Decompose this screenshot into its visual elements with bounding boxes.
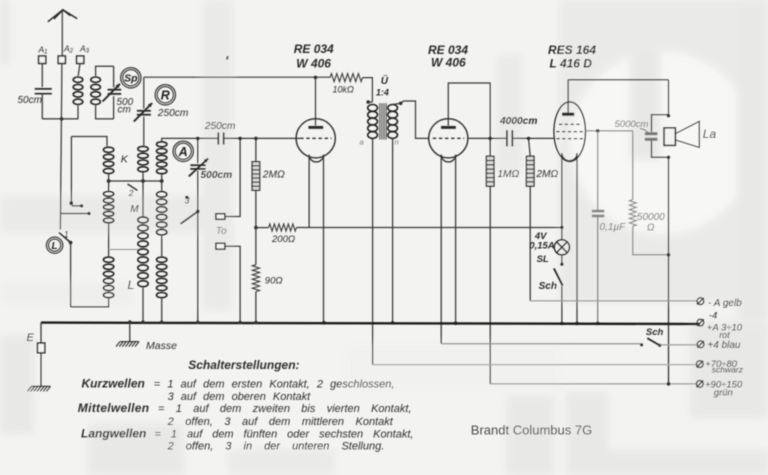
wire 50cm cap to node — [41, 94, 43, 119]
svg-text:cm: cm — [118, 104, 131, 115]
wire grid rail left — [162, 138, 218, 141]
terminal +90 — [696, 381, 703, 388]
svg-text:2MΩ: 2MΩ — [262, 169, 285, 180]
wire filament V2 left — [440, 155, 442, 344]
junction Masse bus — [128, 320, 131, 323]
wire 0.1uF to bus — [597, 217, 599, 324]
wire coil2 to bus — [142, 288, 144, 323]
svg-text:3 auf dem oberen Kontakt: 3 auf dem oberen Kontakt — [168, 391, 312, 403]
wire B+ top rail — [568, 79, 668, 81]
wire to +90 terminal — [490, 383, 696, 385]
svg-text:Sp: Sp — [124, 73, 138, 85]
wire A cap to bus — [197, 171, 199, 323]
coil M2 L2 — [138, 217, 148, 287]
coil L3 — [157, 257, 167, 298]
svg-text:5000cm: 5000cm — [615, 119, 649, 130]
coil K1 — [103, 147, 113, 173]
junction link col2 — [141, 179, 145, 183]
wire To lower — [225, 246, 240, 322]
ground earth — [28, 386, 51, 391]
junction secondary bus — [391, 321, 395, 325]
capacitor 4000cm — [507, 130, 512, 146]
wire R cap to coil K2 — [143, 117, 145, 146]
wire M1-L1 — [108, 224, 110, 257]
dial R — [155, 85, 175, 105]
svg-text:To: To — [216, 226, 227, 237]
svg-text:n: n — [395, 138, 399, 147]
svg-text:2 offen, 3 auf dem mittleren K: 2 offen, 3 auf dem mittleren Kontakt — [167, 416, 394, 428]
svg-text:K: K — [121, 154, 129, 166]
wire 50000 to B+ rail — [633, 226, 669, 255]
terminal -A — [697, 298, 704, 305]
wire secondary bottom — [392, 138, 394, 322]
wire to +70 terminal — [372, 364, 696, 366]
wire 90R to bus — [255, 292, 257, 323]
wire K3-M3 — [161, 175, 163, 191]
wire cap to V3 grid — [513, 137, 554, 139]
svg-text:L: L — [128, 278, 135, 292]
wire switch to bus — [561, 286, 563, 324]
junction antenna/earth node — [60, 117, 64, 121]
terminal E — [37, 343, 44, 353]
wire to wave switch contact — [70, 243, 72, 307]
wire 2M to 90R — [255, 190, 257, 264]
svg-text:A: A — [178, 145, 188, 159]
wire plate V2 — [448, 83, 490, 137]
junction plate V1 — [314, 76, 318, 80]
junction transformer in — [366, 100, 370, 104]
svg-text:4000cm: 4000cm — [499, 116, 537, 127]
wire A1 to 50cm cap — [41, 64, 43, 88]
wire to 0.1uF — [597, 131, 599, 210]
junction 0.1uF bus — [596, 322, 600, 326]
contact M1 tap a — [80, 204, 83, 207]
transformer T1 secondary — [388, 105, 398, 139]
wire E to earth — [40, 353, 42, 386]
speaker La driver — [664, 128, 675, 146]
wire to Sp capacitor — [113, 66, 115, 87]
wire secondary top — [96, 66, 114, 76]
wire K2 to M2 — [142, 173, 144, 216]
junction 2M tap — [527, 137, 531, 141]
wire to output transformer — [668, 80, 670, 115]
terminal +70 — [696, 361, 703, 368]
contact wave switch — [69, 241, 73, 245]
junction 1M tap — [488, 137, 492, 141]
wire 2M down — [529, 186, 531, 301]
svg-text:SL: SL — [537, 254, 549, 265]
junction 0.1uF tap — [596, 129, 600, 133]
wire to V2 grid — [401, 101, 429, 138]
junction B+ rail +90 — [667, 382, 671, 386]
junction coil2 bus — [141, 320, 144, 323]
junction link col1 — [107, 179, 111, 183]
resistor R8 50000 — [629, 200, 636, 227]
wire plate V3 — [567, 80, 569, 114]
wire grid V1 — [296, 137, 300, 139]
dial L — [46, 237, 62, 253]
triode V1 RE034 — [296, 119, 335, 162]
junction speaker top — [667, 114, 671, 118]
capacitor 0.1uF — [592, 211, 604, 216]
svg-text:a: a — [360, 138, 364, 147]
wire bus to E — [40, 323, 42, 343]
wire grid rail right — [224, 137, 296, 139]
contact Sch2 left — [640, 343, 643, 346]
resistor R6 1M — [486, 156, 494, 186]
svg-text:rot: rot — [719, 330, 730, 340]
stub M1 tap a — [72, 205, 81, 207]
coil M1 — [103, 192, 113, 223]
resistor R4 200R — [269, 224, 297, 231]
svg-text:2MΩ: 2MΩ — [535, 169, 558, 180]
svg-text:R: R — [161, 88, 170, 102]
wire A3 to antenna coil — [78, 64, 80, 76]
wire filament V1 left — [308, 155, 310, 228]
svg-text:10kΩ: 10kΩ — [333, 85, 355, 95]
svg-text:0,15A: 0,15A — [529, 241, 554, 252]
pentode V3 RES164 — [554, 102, 586, 162]
variable capacitor A 500cm — [189, 158, 208, 176]
wire 2M top — [255, 138, 257, 161]
wire K1 top — [71, 137, 107, 147]
junction lamp rail — [560, 226, 563, 229]
wire primary bottom lead — [77, 106, 79, 119]
wire plate V1 — [315, 77, 317, 125]
svg-text:RES 164: RES 164 — [548, 43, 596, 57]
svg-text:Brandt Columbus 7G: Brandt Columbus 7G — [471, 423, 592, 438]
wire filament V1 right — [323, 155, 325, 323]
svg-text:Sch: Sch — [539, 281, 557, 292]
wire secondary bottom loop — [96, 106, 114, 119]
svg-text:1MΩ: 1MΩ — [497, 169, 519, 180]
switch arm 3b — [181, 211, 198, 223]
wire 1M top — [489, 138, 491, 156]
junction V3 filament bus — [575, 322, 579, 326]
wire 2M top — [529, 138, 531, 156]
antenna mast lead — [61, 11, 63, 57]
svg-text:250cm: 250cm — [157, 108, 189, 119]
resistor R7 2M — [526, 156, 534, 186]
contact square — [70, 202, 73, 205]
capacitor 50cm — [35, 89, 52, 94]
svg-text:Langwellen: Langwellen — [81, 426, 146, 440]
wire to transformer — [363, 78, 373, 102]
transformer T1 primary — [368, 105, 378, 139]
svg-text:2: 2 — [128, 188, 134, 198]
svg-text:E: E — [27, 332, 35, 344]
terminal To upper — [216, 214, 225, 220]
stub M1 tap b — [60, 213, 87, 215]
svg-text:-4: -4 — [709, 311, 717, 322]
svg-text:Sch: Sch — [646, 327, 664, 338]
wire filament V3 left / lamp feed — [561, 153, 563, 240]
terminal A1 — [39, 56, 46, 64]
wire coil3 to bus — [161, 299, 163, 323]
terminal -4/+A — [697, 319, 704, 326]
coil M3 — [157, 192, 167, 235]
svg-text:L: L — [52, 241, 58, 252]
wire M3-L3 — [161, 236, 163, 256]
svg-text:Ü: Ü — [381, 74, 389, 87]
svg-text:90Ω: 90Ω — [265, 275, 283, 286]
antenna symbol — [48, 10, 77, 22]
junction To branch — [238, 137, 242, 141]
svg-text:0,1µF: 0,1µF — [600, 222, 627, 233]
svg-text:Mittelwellen: Mittelwellen — [78, 401, 150, 415]
wire filament V3 right — [576, 153, 578, 323]
svg-text:M: M — [130, 204, 139, 215]
svg-text:- A gelb: - A gelb — [708, 298, 742, 309]
wire lamp to switch — [561, 255, 563, 263]
wire filament rail — [296, 227, 562, 229]
svg-text:Masse: Masse — [146, 340, 177, 352]
svg-text:3: 3 — [185, 196, 190, 206]
switch Sch2 arm — [647, 338, 660, 345]
svg-text:1: 1 — [64, 229, 69, 239]
wire contact column — [70, 137, 72, 202]
junction A cap bus — [196, 321, 199, 324]
wire A cap top — [197, 138, 199, 163]
svg-text:RE 034: RE 034 — [294, 42, 334, 56]
svg-text:1:4: 1:4 — [376, 88, 389, 98]
wire To upper — [225, 138, 240, 216]
terminal A2 — [58, 56, 65, 64]
wire to -A terminal — [530, 300, 697, 302]
junction 2M branch — [254, 137, 258, 141]
svg-text:schwarz: schwarz — [712, 365, 744, 375]
contact M1 tap b — [87, 212, 90, 215]
wire antenna mast down — [60, 64, 62, 230]
junction grid rail / A cap — [196, 137, 200, 141]
junction V2 filament bus — [454, 321, 458, 325]
junction 90R bus — [254, 321, 257, 324]
switch arm 1 — [59, 233, 70, 243]
svg-text:+4 blau: +4 blau — [707, 340, 741, 351]
junction secondary top — [399, 102, 403, 106]
wire secondary top lead — [393, 103, 401, 104]
junction V1 filament bus — [322, 321, 326, 325]
speaker La cone — [675, 121, 699, 147]
capacitor 250cm series — [218, 132, 223, 144]
switch arm 2 — [128, 184, 138, 191]
junction To bus — [238, 321, 241, 324]
leader 5000cm — [640, 129, 649, 134]
resistor R3 2M — [252, 162, 260, 191]
antenna coil secondary — [91, 77, 101, 105]
wire Sp cap bottom — [113, 96, 115, 119]
capacitor 5000cm — [645, 134, 658, 140]
wire V2 plate to cap — [468, 137, 506, 139]
svg-text:W 406: W 406 — [296, 57, 331, 71]
svg-text:= 1 auf dem ersten Kontakt, 2: = 1 auf dem ersten Kontakt, 2 geschlosse… — [154, 378, 395, 390]
svg-text:Ω: Ω — [647, 223, 655, 234]
variable capacitor Sp 500cm — [103, 84, 122, 102]
antenna coil primary — [73, 77, 83, 105]
scan speck — [226, 56, 229, 60]
wire band link — [109, 180, 162, 182]
wire main bus — [41, 323, 700, 324]
pilot lamp SL — [554, 240, 569, 255]
junction switch arm 3 — [196, 210, 200, 214]
wire antenna coil bottom — [42, 118, 78, 120]
wire R branch down — [143, 77, 145, 108]
wire K1-M1 — [108, 175, 110, 191]
wire to 200R — [256, 227, 269, 229]
wire primary to heater tap — [372, 138, 374, 364]
svg-text:500cm: 500cm — [201, 170, 233, 181]
terminal To lower — [216, 243, 225, 249]
svg-text:250cm: 250cm — [204, 121, 236, 132]
coil L1 — [103, 257, 113, 298]
junction lamp bus — [560, 322, 564, 326]
wire L1 bottom — [71, 299, 109, 307]
wire top rail left — [144, 76, 330, 78]
variable capacitor R 250cm — [134, 103, 152, 122]
wire screen tap rail — [585, 130, 633, 132]
junction link col3 — [160, 179, 164, 183]
svg-text:grün: grün — [714, 387, 733, 398]
svg-text:50cm: 50cm — [18, 95, 42, 106]
contact switch Sch1 — [560, 263, 563, 266]
wire to 50000 — [632, 131, 634, 200]
junction 50000 B+ — [667, 253, 671, 257]
svg-text:L 416 D: L 416 D — [550, 57, 593, 71]
svg-text:200Ω: 200Ω — [271, 234, 295, 245]
contact Sch2 right — [658, 344, 661, 347]
ground Masse — [116, 342, 139, 347]
wire primary top lead — [368, 101, 372, 103]
triode V2 RE034 — [429, 119, 468, 162]
svg-text:Kurzwellen: Kurzwellen — [82, 376, 145, 390]
wire band link 2 — [109, 249, 143, 251]
coil K3 — [157, 142, 167, 174]
transformer T1 core — [380, 103, 386, 139]
contact 3 — [185, 196, 188, 199]
output transformer / speaker frame — [652, 115, 669, 158]
svg-text:2 offen, 3 in der unteren Stel: 2 offen, 3 in der unteren Stellung. — [167, 441, 385, 453]
wire filament V2 right — [455, 155, 457, 323]
wire to +4 switch — [442, 343, 641, 345]
resistor R1 10k — [330, 74, 363, 82]
wire 1M down — [489, 186, 491, 384]
terminal +4 — [697, 341, 704, 348]
svg-text:50000: 50000 — [637, 212, 665, 223]
dial A — [173, 141, 193, 161]
svg-text:Schalterstellungen:: Schalterstellungen: — [188, 358, 299, 372]
wire Sch2 to +4 terminal — [660, 344, 697, 346]
terminal A3 — [77, 56, 84, 64]
svg-text:La: La — [703, 127, 717, 141]
wire bus to Masse — [129, 322, 131, 341]
junction coil3 bus — [160, 320, 163, 323]
wire B+ down rail — [668, 157, 670, 384]
junction speaker bottom — [667, 156, 671, 160]
svg-text:= 1 auf dem fünften oder sechs: = 1 auf dem fünften oder sechsten Kontak… — [155, 428, 414, 440]
resistor R5 90R — [252, 265, 259, 292]
dial Sp — [121, 68, 141, 88]
junction 200R tap — [254, 226, 258, 230]
coil K2 — [138, 146, 148, 171]
switch Sch1 arm — [554, 268, 563, 285]
svg-text:W 406: W 406 — [431, 56, 466, 70]
svg-text:= 1 auf dem zweiten bis vierte: = 1 auf dem zweiten bis vierten Kontakt, — [158, 403, 411, 415]
